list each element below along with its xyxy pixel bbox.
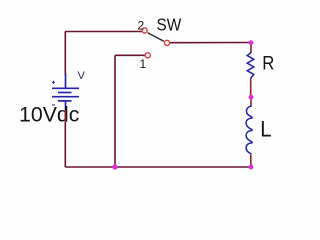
junction dot at bottom middle <box>112 164 117 169</box>
svg-text:L: L <box>260 116 271 141</box>
junction dot between R and L <box>249 95 254 100</box>
voltage source bottom lead (blue stub) <box>65 101 67 110</box>
wire: from switch common to resistor branch <box>170 42 252 44</box>
wire: bottom net <box>65 166 251 168</box>
svg-text:SW: SW <box>157 14 182 34</box>
inductor L coil <box>246 106 252 155</box>
junction dot at switch/resistor net <box>249 40 254 45</box>
junction dot at bottom right <box>249 165 254 170</box>
wire: left vertical from top corner down to battery <box>64 32 66 76</box>
wire: top net from battery + to switch pin 2 <box>65 31 142 33</box>
plus sign of source <box>52 81 55 84</box>
battery plate short <box>58 92 72 94</box>
minus sign of source <box>52 104 55 106</box>
wire: horizontal into switch pin 1 <box>115 54 145 56</box>
wire: middle vertical from switch pin 1 to bottom net <box>114 55 116 167</box>
inductor L top lead <box>250 97 252 107</box>
svg-text:V: V <box>78 70 86 82</box>
voltage source V1 top lead (blue stub) <box>65 74 67 88</box>
svg-text:10Vdc: 10Vdc <box>19 102 80 126</box>
resistor R zigzag <box>247 53 254 79</box>
battery plate long top <box>52 87 79 89</box>
switch SW blade <box>148 33 164 42</box>
inductor L bottom lead <box>250 155 252 167</box>
wire: left vertical to bottom net <box>64 122 66 167</box>
svg-text:2: 2 <box>138 19 145 33</box>
svg-text:1: 1 <box>140 57 147 71</box>
switch pin 2 terminal circle <box>142 28 147 33</box>
switch common terminal circle <box>164 40 169 45</box>
svg-text:R: R <box>262 52 274 73</box>
switch pin 1 terminal circle <box>145 53 150 58</box>
battery plate short bottom <box>58 100 72 102</box>
voltage source bottom red lead <box>64 110 66 123</box>
battery plate long <box>52 96 79 98</box>
resistor R bottom lead <box>250 79 252 98</box>
resistor R top lead <box>250 43 252 53</box>
